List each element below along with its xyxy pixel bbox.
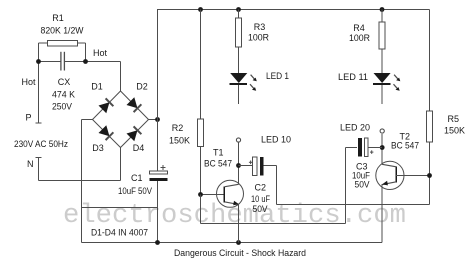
wire C2 to T2 base / R5 [264,165,277,167]
svg-text:Dangerous Circuit - Shock Haza: Dangerous Circuit - Shock Hazard [174,248,306,258]
wire terminal to T2 collector [381,134,383,165]
svg-text:N: N [27,159,34,169]
junction top rail / R3 [236,7,241,12]
capacitor C1 10uF 50V [150,171,168,174]
junction positive rail / bridge output [155,117,160,122]
svg-text:R1: R1 [52,13,64,23]
LED 1 [230,73,247,83]
transistor T1 BC547 [217,180,244,207]
svg-text:D3: D3 [92,143,104,153]
svg-text:250V: 250V [52,102,72,112]
svg-text:LED 20: LED 20 [340,123,370,133]
resistor R2 150K [200,10,202,120]
svg-text:50V: 50V [355,180,370,190]
wire N to bridge bottom [39,180,121,182]
wire bridge edge top-left [93,91,121,120]
svg-text:T1: T1 [213,148,224,158]
junction T1 base / R2 [198,192,203,197]
node LED string terminal (LED 10) [236,138,240,142]
wire T1 base cross-coupling to C3 [200,195,202,224]
svg-text:LED 11: LED 11 [338,72,368,82]
svg-text:C2: C2 [255,183,267,193]
resistor R5 150K [429,10,431,112]
svg-text:D1-D4 IN 4007: D1-D4 IN 4007 [91,228,148,238]
junction hot rail / R1 right lead [83,59,88,64]
node LED string terminal (LED 20) [380,129,384,133]
resistor R4 100R [381,10,383,23]
junction T1 collector / C2 [236,163,241,168]
junction T2 base / R5 [427,173,432,178]
svg-text:D4: D4 [133,143,145,153]
wire bridge edge top-right [121,91,149,120]
svg-text:BC 547: BC 547 [204,159,232,169]
svg-text:R5: R5 [448,114,460,124]
svg-text:D2: D2 [136,82,148,92]
capacitor C2 10uF 50V [239,165,253,167]
junction hot rail / P lead [36,59,41,64]
svg-text:Hot: Hot [22,77,37,87]
svg-text:230V AC 50Hz: 230V AC 50Hz [14,139,68,149]
node N terminal [36,157,42,159]
junction top rail / R4 [380,7,385,12]
label box D1-D4 IN 4007 [82,207,158,209]
junction T2 collector / C3 [380,145,385,150]
svg-text:P: P [26,113,32,123]
wire bridge edge bottom-left [93,120,121,148]
wire top supply rail [158,9,430,11]
svg-text:LED 1: LED 1 [266,71,289,81]
wire bridge top feed [120,62,122,92]
diode D1 [99,102,110,113]
LED 11 [374,73,391,83]
wire hot rail left segment [39,61,61,63]
svg-text:100R: 100R [349,33,370,43]
wire hot rail right segment to bridge top [65,61,120,63]
junction bottom rail / C1 [155,240,160,245]
wire bridge negative output to bottom rail [82,119,93,121]
svg-text:R4: R4 [353,23,365,33]
svg-text:R3: R3 [254,22,266,32]
svg-text:electroschematics.com: electroschematics.com [63,201,406,231]
svg-text:100R: 100R [248,33,269,43]
svg-text:820K 1/2W: 820K 1/2W [41,26,84,36]
diode D2 [127,97,138,108]
wire terminal to T1 collector [238,143,240,185]
wire bridge edge bottom-right [121,120,149,148]
svg-text:D1: D1 [91,82,103,92]
diode D3 [99,125,110,136]
junction top rail / R2 [198,7,203,12]
svg-text:150K: 150K [444,126,465,136]
junction bottom rail / T1 emitter [236,240,241,245]
svg-text:Hot: Hot [93,48,108,58]
node P terminal [38,62,40,124]
svg-text:50V: 50V [253,204,268,214]
svg-text:R2: R2 [172,123,184,133]
svg-text:BC 547: BC 547 [391,141,419,151]
svg-text:474 K: 474 K [52,90,75,100]
wire bottom ground rail [82,242,383,244]
wire positive rail left vertical [157,9,159,171]
resistor R3 100R [238,10,240,19]
svg-text:C1: C1 [131,173,143,183]
resistor R1 820K 1/2W [39,42,48,44]
svg-text:LED 10: LED 10 [261,135,291,145]
capacitor CX 474K 250V [60,52,62,71]
svg-text:10uF 50V: 10uF 50V [118,186,152,196]
transistor T2 BC547 [376,161,404,189]
diode D4 [127,130,138,141]
svg-text:150K: 150K [169,136,190,146]
capacitor C3 10uF 50V [368,147,382,149]
svg-text:CX: CX [58,77,71,87]
wire bridge positive output [149,119,158,121]
svg-text:10 uF: 10 uF [251,194,270,204]
